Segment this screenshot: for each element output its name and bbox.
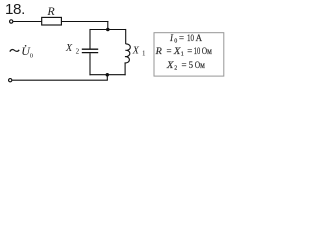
- bottom bar of parallel section: [89, 74, 125, 76]
- svg-text:10: 10: [194, 46, 201, 56]
- svg-text:18.: 18.: [5, 1, 25, 18]
- svg-text:X: X: [132, 46, 140, 57]
- svg-text:2: 2: [76, 48, 80, 56]
- svg-text:1: 1: [142, 50, 146, 58]
- inductor branch upper wire: [125, 29, 127, 44]
- capacitor branch upper wire: [89, 29, 91, 49]
- svg-text:X: X: [65, 43, 73, 54]
- wire: corner drop to top node: [107, 21, 109, 30]
- inductor X1 coil (3 arcs): [125, 44, 131, 63]
- capacitor branch lower wire: [89, 53, 91, 75]
- svg-text:A: A: [196, 33, 203, 43]
- svg-text:R: R: [154, 46, 162, 56]
- svg-text:10: 10: [187, 33, 194, 43]
- svg-text:0: 0: [174, 39, 177, 45]
- data line 2: R = X1 = 10 Om: [154, 46, 212, 58]
- stub from bottom node down to bottom wire: [106, 75, 108, 81]
- wire: resistor to top corner: [61, 21, 108, 23]
- svg-text:5: 5: [189, 60, 194, 70]
- svg-text:Ом: Ом: [195, 60, 205, 70]
- bottom wire: [12, 79, 108, 81]
- node dot bottom: [106, 73, 110, 77]
- svg-text:=: =: [182, 60, 187, 70]
- svg-text:1: 1: [181, 52, 184, 58]
- svg-text:=: =: [167, 46, 172, 56]
- node dot top: [106, 28, 110, 32]
- data box: [154, 33, 224, 76]
- svg-text:=: =: [187, 46, 192, 56]
- top bar of parallel section: [90, 29, 126, 31]
- AC source tilde: [10, 50, 19, 52]
- wire: terminal to resistor: [13, 21, 42, 23]
- resistor R body: [42, 17, 62, 25]
- terminal bottom-left: [9, 79, 12, 82]
- capacitor X2 top plate: [82, 48, 98, 50]
- data line 1: I0 = 10 A: [169, 33, 203, 45]
- data line 3: X2 = 5 Om: [166, 60, 206, 72]
- terminal top-left: [10, 20, 13, 23]
- inductor branch lower wire: [124, 63, 126, 75]
- svg-text:R: R: [46, 4, 55, 18]
- svg-text:Ом: Ом: [202, 46, 212, 56]
- svg-text:X: X: [166, 60, 174, 70]
- svg-text:=: =: [179, 33, 184, 43]
- svg-text:2: 2: [174, 66, 177, 72]
- capacitor X2 bottom plate: [82, 52, 98, 54]
